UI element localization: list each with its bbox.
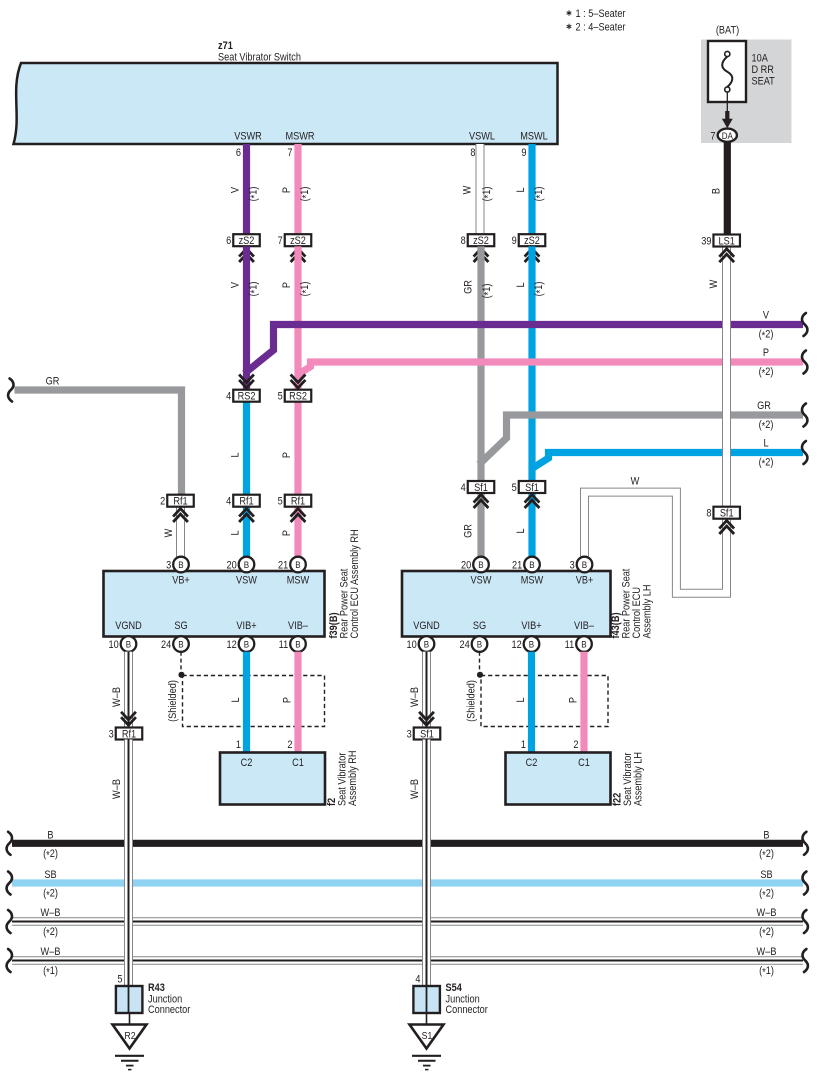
svg-text:(*1): (*1) <box>248 187 261 202</box>
bus P horizontal <box>297 362 804 376</box>
svg-text:4: 4 <box>226 391 231 403</box>
connector 5 Rf1 <box>285 495 312 507</box>
svg-text:Rf1: Rf1 <box>291 496 306 508</box>
pin 20 B <box>473 557 489 573</box>
svg-text:Assembly LH: Assembly LH <box>642 584 654 638</box>
connector 4 Rf1 <box>233 495 260 507</box>
svg-text:B: B <box>178 559 183 570</box>
svg-text:(*1): (*1) <box>533 282 546 297</box>
svg-text:4: 4 <box>461 482 466 494</box>
connector 4 RS2 <box>239 375 254 388</box>
svg-text:(*1): (*1) <box>481 284 494 299</box>
svg-text:P: P <box>281 282 293 288</box>
bus L horizontal <box>531 453 804 470</box>
svg-text:VB+: VB+ <box>576 575 594 587</box>
connector 7 zS2 <box>285 234 312 246</box>
pin 20 B <box>239 557 255 573</box>
connector 9 zS2 <box>519 234 546 246</box>
svg-text:(Shielded): (Shielded) <box>167 680 179 722</box>
pin 24 B <box>472 636 488 652</box>
svg-text:2: 2 <box>287 739 292 751</box>
svg-text:12: 12 <box>226 639 237 651</box>
connector 6 zS2 <box>233 234 260 246</box>
connector 39 LS1 <box>713 235 740 247</box>
svg-text:z71: z71 <box>218 40 233 52</box>
junction connector R43 <box>116 986 142 1013</box>
svg-text:9: 9 <box>512 236 517 248</box>
svg-text:(*1): (*1) <box>248 282 261 297</box>
svg-text:VB+: VB+ <box>172 575 190 587</box>
connector 4 Sf1 <box>468 481 495 493</box>
svg-text:(*2): (*2) <box>759 329 774 342</box>
connector 5 RS2 <box>291 375 306 388</box>
pin 3 B <box>577 557 593 573</box>
wire W-B (LH VGND down) <box>422 652 431 728</box>
wire L (LH VIB+ to C2) <box>528 652 535 753</box>
svg-text:5: 5 <box>117 974 122 986</box>
svg-text:3: 3 <box>570 560 575 572</box>
svg-text:R43: R43 <box>148 982 165 994</box>
svg-text:(*1): (*1) <box>533 187 546 202</box>
ground S1 <box>426 1013 428 1025</box>
svg-text:(*2): (*2) <box>759 848 774 861</box>
svg-text:7: 7 <box>710 131 715 143</box>
svg-text:Sf1: Sf1 <box>525 482 539 494</box>
svg-text:L: L <box>230 530 242 535</box>
svg-text:8: 8 <box>470 147 475 159</box>
wire V (z71 pin6 to zS2) <box>243 144 250 234</box>
wire P (RH VIB- to C1) <box>294 652 301 753</box>
svg-text:W–B: W–B <box>409 687 421 707</box>
svg-text:11: 11 <box>565 639 575 651</box>
svg-text:Rf1: Rf1 <box>239 496 254 508</box>
svg-text:Assembly RH: Assembly RH <box>347 750 359 806</box>
svg-text:B: B <box>295 639 300 650</box>
vibrator f22 Seat Vibrator Assembly LH <box>506 753 611 805</box>
legend note 1 <box>567 10 572 15</box>
bus V horizontal <box>245 325 804 374</box>
svg-text:P: P <box>568 697 580 703</box>
pin 3 B <box>173 557 189 573</box>
pin 12 B <box>524 636 540 652</box>
svg-text:C1: C1 <box>578 757 590 769</box>
svg-text:B: B <box>763 830 769 842</box>
svg-text:W–B: W–B <box>41 907 61 919</box>
svg-text:B: B <box>581 639 586 650</box>
svg-text:B: B <box>244 639 249 650</box>
wire P (z71 pin7 to zS2) <box>294 144 301 234</box>
wire fuse to DA <box>726 92 728 114</box>
svg-text:39: 39 <box>701 236 712 248</box>
svg-text:MSW: MSW <box>287 575 310 587</box>
svg-text:SG: SG <box>473 620 486 632</box>
wire W-B (3 Sf1 down to S54) <box>422 740 431 987</box>
svg-text:W–B: W–B <box>111 779 123 799</box>
ECU f39(B) Rear Power Seat Control ECU Assembly RH <box>104 571 325 637</box>
svg-text:21: 21 <box>278 560 289 572</box>
svg-text:(*2): (*2) <box>759 419 774 432</box>
svg-text:(*1): (*1) <box>299 282 312 297</box>
svg-text:B: B <box>529 559 534 570</box>
svg-text:P: P <box>763 347 769 359</box>
svg-text:RS2: RS2 <box>238 391 256 403</box>
svg-text:B: B <box>47 830 53 842</box>
svg-text:DA: DA <box>722 130 733 141</box>
svg-text:11: 11 <box>279 639 289 651</box>
svg-text:20: 20 <box>461 560 472 572</box>
connector 8 Sf1 <box>713 507 740 519</box>
connector 5 Sf1 <box>519 481 546 493</box>
wire GR left feed <box>15 390 182 495</box>
svg-text:4: 4 <box>415 974 420 986</box>
svg-text:B: B <box>295 559 300 570</box>
svg-text:VSWL: VSWL <box>469 131 495 143</box>
svg-text:L: L <box>230 697 242 702</box>
svg-text:L: L <box>230 452 242 457</box>
svg-text:W–B: W–B <box>757 907 777 919</box>
wire P (RS2-5 to Rf1-5) <box>294 402 301 495</box>
svg-text:Rf1: Rf1 <box>173 496 188 508</box>
svg-text:Seat Vibrator Switch: Seat Vibrator Switch <box>218 52 301 64</box>
svg-text:(*1): (*1) <box>759 965 774 978</box>
pin 11 B <box>576 636 592 652</box>
svg-text:3: 3 <box>407 729 412 741</box>
svg-text:zS2: zS2 <box>524 235 540 247</box>
svg-text:(*2): (*2) <box>43 926 58 939</box>
svg-text:(*1): (*1) <box>299 187 312 202</box>
wire P (LH VIB- to C1) <box>580 652 587 753</box>
svg-text:SEAT: SEAT <box>752 76 775 88</box>
wire B (battery) <box>724 142 731 235</box>
svg-text:8: 8 <box>706 508 711 520</box>
wire P (Rf1-5 to RH MSW) <box>294 507 301 557</box>
svg-text:8: 8 <box>461 236 466 248</box>
bus SB <box>12 879 803 886</box>
svg-text:D RR: D RR <box>752 64 774 76</box>
svg-text:W–B: W–B <box>111 687 123 707</box>
svg-text:B: B <box>126 639 131 650</box>
fuse 10A D RR SEAT <box>708 41 746 102</box>
svg-text:1 : 5–Seater: 1 : 5–Seater <box>576 8 627 20</box>
svg-text:(*2): (*2) <box>759 926 774 939</box>
svg-text:5: 5 <box>512 482 517 494</box>
svg-text:B: B <box>244 559 249 570</box>
wire L (zS2-9 down to Sf1-5) <box>528 246 535 481</box>
pin 10 B <box>419 636 435 652</box>
svg-text:Sf1: Sf1 <box>420 729 434 741</box>
wire W (LS1 down to Sf1-8) <box>722 247 731 507</box>
svg-text:Sf1: Sf1 <box>720 508 734 520</box>
junction connector S54 <box>413 986 440 1013</box>
svg-text:MSW: MSW <box>521 575 544 587</box>
svg-text:5: 5 <box>278 391 283 403</box>
svg-text:VSW: VSW <box>236 575 257 587</box>
svg-text:10A: 10A <box>752 53 769 65</box>
pin 10 B <box>121 636 137 652</box>
bus B <box>12 840 803 847</box>
shield LH (Shielded) <box>479 652 481 672</box>
wire L (RS2-4 to Rf1-4) <box>243 402 250 495</box>
svg-text:2: 2 <box>160 496 165 508</box>
svg-text:L: L <box>515 697 527 702</box>
wire GR (zS2-8 down to Sf1-4) <box>477 246 484 481</box>
svg-text:12: 12 <box>511 639 522 651</box>
connector 8 zS2 <box>468 234 495 246</box>
pin 11 B <box>290 636 306 652</box>
pin 24 B <box>173 636 189 652</box>
svg-text:B: B <box>178 639 183 650</box>
svg-text:VGND: VGND <box>413 620 440 632</box>
svg-text:5: 5 <box>278 496 283 508</box>
svg-text:1: 1 <box>236 739 241 751</box>
svg-text:GR: GR <box>463 524 475 538</box>
legend note 2 <box>567 24 572 29</box>
wire GR (Sf1-4 to LH VSW) <box>477 493 484 557</box>
svg-text:VGND: VGND <box>115 620 142 632</box>
bus W-B 2 <box>12 917 803 925</box>
svg-text:C1: C1 <box>292 757 304 769</box>
svg-text:(*2): (*2) <box>759 888 774 901</box>
fuse panel (BAT) <box>701 40 792 144</box>
svg-text:S54: S54 <box>446 982 463 994</box>
svg-text:L: L <box>515 528 527 533</box>
connector 2 Rf1 <box>167 495 194 507</box>
arrow into DA <box>725 111 729 120</box>
svg-text:P: P <box>282 697 294 703</box>
svg-text:MSWL: MSWL <box>520 131 548 143</box>
svg-text:zS2: zS2 <box>239 235 255 247</box>
svg-text:2 : 4–Seater: 2 : 4–Seater <box>576 22 627 34</box>
svg-text:10: 10 <box>406 639 417 651</box>
svg-text:20: 20 <box>226 560 237 572</box>
svg-text:B: B <box>529 639 534 650</box>
svg-text:(*2): (*2) <box>759 366 774 379</box>
connector 7 DA <box>718 129 737 142</box>
wire W-B (3 Rf1 down to R43) <box>124 740 133 987</box>
pin 21 B <box>290 557 306 573</box>
svg-text:MSWR: MSWR <box>285 131 314 143</box>
svg-text:Control ECU Assembly RH: Control ECU Assembly RH <box>349 529 361 638</box>
wire W-B (RH VGND down) <box>124 652 133 728</box>
bus GR horizontal <box>479 415 803 465</box>
wire L (z71 pin9 to zS2) <box>528 144 535 234</box>
svg-text:R2: R2 <box>124 1030 135 1042</box>
svg-text:3: 3 <box>109 729 114 741</box>
svg-text:21: 21 <box>512 560 523 572</box>
svg-text:1: 1 <box>521 739 526 751</box>
svg-text:Rf1: Rf1 <box>122 729 137 741</box>
ground R2 <box>129 1013 131 1025</box>
svg-text:B: B <box>478 559 483 570</box>
svg-text:SG: SG <box>174 620 187 632</box>
svg-text:(*2): (*2) <box>759 457 774 470</box>
svg-text:GR: GR <box>46 376 60 388</box>
svg-text:VIB–: VIB– <box>288 620 308 632</box>
svg-text:W: W <box>631 476 640 488</box>
svg-text:C2: C2 <box>526 757 538 769</box>
svg-text:VSWR: VSWR <box>234 131 262 143</box>
svg-text:B: B <box>424 639 429 650</box>
pin 21 B <box>524 557 540 573</box>
svg-text:(*2): (*2) <box>43 888 58 901</box>
svg-text:2: 2 <box>573 739 578 751</box>
svg-text:(*2): (*2) <box>43 848 58 861</box>
svg-text:S1: S1 <box>422 1030 433 1042</box>
svg-text:RS2: RS2 <box>289 391 307 403</box>
svg-text:7: 7 <box>278 236 283 248</box>
wire L (Sf1-5 to LH MSW) <box>528 493 535 557</box>
svg-text:VIB–: VIB– <box>574 620 594 632</box>
svg-text:10: 10 <box>108 639 119 651</box>
wire P (zS2-7 down to RS2-5) <box>294 246 301 389</box>
svg-text:B: B <box>477 639 482 650</box>
wire W (z71 pin8 to zS2) <box>476 144 485 234</box>
svg-text:4: 4 <box>226 496 231 508</box>
svg-text:W: W <box>163 528 175 537</box>
svg-text:L: L <box>515 282 527 287</box>
svg-text:VSW: VSW <box>471 575 492 587</box>
svg-text:W–B: W–B <box>41 946 61 958</box>
svg-text:VIB+: VIB+ <box>236 620 256 632</box>
svg-text:V: V <box>230 187 242 193</box>
bus W-B 1 <box>12 956 803 964</box>
wire V (zS2-6 down to RS2-4) <box>243 246 250 389</box>
svg-text:W–B: W–B <box>409 779 421 799</box>
svg-text:VIB+: VIB+ <box>521 620 541 632</box>
svg-text:9: 9 <box>521 147 526 159</box>
svg-text:(*1): (*1) <box>43 965 58 978</box>
svg-text:7: 7 <box>287 147 292 159</box>
ECU f43(B) Rear Power Seat Control ECU Assembly LH <box>402 571 611 637</box>
svg-text:B: B <box>582 559 587 570</box>
connector 3 Sf1 <box>414 728 441 740</box>
svg-text:W: W <box>462 185 474 194</box>
svg-text:Assembly LH: Assembly LH <box>633 752 645 806</box>
wire W (Sf1-8 to LH VB+) <box>585 492 727 593</box>
svg-text:W–B: W–B <box>757 946 777 958</box>
svg-text:P: P <box>281 530 293 536</box>
pin 12 B <box>239 636 255 652</box>
svg-text:GR: GR <box>757 400 771 412</box>
switch z71 Seat Vibrator Switch <box>14 63 558 144</box>
svg-text:W: W <box>708 279 720 288</box>
svg-text:(*1): (*1) <box>481 187 494 202</box>
svg-text:(Shielded): (Shielded) <box>466 680 478 722</box>
svg-text:V: V <box>763 310 769 322</box>
wire W (Rf1-2 to RH VB+) <box>176 507 185 557</box>
svg-text:SB: SB <box>44 869 57 881</box>
svg-text:zS2: zS2 <box>473 235 489 247</box>
svg-text:Connector: Connector <box>446 1004 489 1016</box>
svg-text:C2: C2 <box>241 757 253 769</box>
svg-text:L: L <box>763 438 768 450</box>
svg-text:24: 24 <box>459 639 470 651</box>
svg-text:Sf1: Sf1 <box>474 482 488 494</box>
wire L (Rf1-4 to RH VSW) <box>243 507 250 557</box>
svg-text:SB: SB <box>760 869 773 881</box>
vibrator f2 Seat Vibrator Assembly RH <box>220 753 325 805</box>
svg-text:P: P <box>281 187 293 193</box>
svg-text:6: 6 <box>236 147 241 159</box>
svg-text:V: V <box>230 282 242 288</box>
svg-text:24: 24 <box>161 639 172 651</box>
svg-text:P: P <box>281 452 293 458</box>
shield RH (Shielded) <box>180 652 182 672</box>
svg-text:3: 3 <box>166 560 171 572</box>
connector 3 Rf1 <box>116 728 143 740</box>
svg-text:LS1: LS1 <box>719 236 736 248</box>
svg-text:zS2: zS2 <box>290 235 306 247</box>
wire L (RH VIB+ to C2) <box>243 652 250 753</box>
svg-text:6: 6 <box>226 236 231 248</box>
svg-text:Connector: Connector <box>148 1004 191 1016</box>
svg-text:L: L <box>515 187 527 192</box>
svg-text:GR: GR <box>463 280 475 294</box>
svg-text:B: B <box>711 188 723 194</box>
svg-text:(BAT): (BAT) <box>716 25 739 37</box>
